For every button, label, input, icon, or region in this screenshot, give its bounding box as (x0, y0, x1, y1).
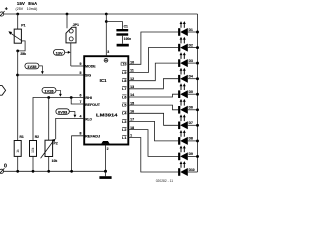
svg-text:L9: L9 (122, 71, 126, 75)
node P1 wiper (16, 50, 19, 53)
label pin name SIG (85, 73, 91, 77)
svg-text:D3: D3 (189, 59, 193, 63)
svg-text:18: 18 (130, 126, 134, 130)
wire pin 17 to D8 (128, 121, 178, 140)
label C1 value (124, 37, 131, 41)
node P2 bottom (47, 170, 50, 173)
node SIG tap (16, 74, 19, 77)
label pin name REFADJ (85, 135, 100, 139)
wire pin 16 to D7 (128, 113, 178, 125)
LED D3 (178, 52, 197, 67)
svg-text:1V26: 1V26 (44, 90, 53, 94)
node D3 anode rail (196, 62, 199, 65)
wire pin 2 ground (105, 145, 107, 172)
pin number 14 (130, 93, 134, 97)
LED D8 (178, 130, 197, 145)
node pin2 bottom (104, 170, 107, 173)
svg-text:D4: D4 (189, 75, 193, 79)
svg-text:SIG: SIG (85, 73, 91, 77)
pin number 17 (130, 118, 134, 122)
jumper JP1 (66, 14, 79, 66)
node R2 bottom (32, 170, 35, 173)
svg-text:JP1: JP1 (73, 23, 79, 27)
svg-text:D7: D7 (189, 121, 193, 125)
svg-text:020282 - 11: 020282 - 11 (156, 179, 174, 183)
resistor R1 (14, 135, 24, 171)
svg-text:10mA): 10mA) (27, 7, 38, 11)
node C1 tap (105, 20, 108, 23)
label pin name L8 (122, 79, 126, 84)
label pin name L2 (122, 128, 126, 133)
node D1 anode rail (196, 31, 199, 34)
wire RLO to P2 wiper (56, 118, 84, 139)
svg-text:L2: L2 (122, 128, 126, 132)
label supply voltage (16, 1, 38, 11)
svg-text:5: 5 (79, 71, 81, 75)
potentiometer P1 (8, 14, 25, 51)
wire pin 11 to D2 (128, 48, 178, 73)
label figure number (156, 179, 174, 183)
node REFADJ bottom (70, 170, 73, 173)
svg-text:D9: D9 (189, 152, 193, 156)
svg-text:REFOUT: REFOUT (85, 103, 101, 107)
label P1 value (20, 52, 26, 56)
label pin name L6 (122, 95, 126, 100)
label pin name L5 (122, 103, 126, 108)
svg-text:8mA: 8mA (28, 1, 37, 6)
wire pin 3 supply (105, 14, 107, 56)
testpoint 1V35 (25, 63, 44, 74)
svg-text:1: 1 (130, 134, 132, 138)
svg-text:L5: L5 (122, 104, 126, 108)
LED D5 (178, 83, 197, 98)
svg-text:L1: L1 (122, 136, 126, 140)
svg-text:D2: D2 (189, 43, 193, 47)
svg-text:L8: L8 (122, 79, 126, 83)
pin number 10 (130, 61, 134, 65)
svg-text:L7: L7 (122, 87, 126, 91)
svg-text:R1: R1 (20, 135, 24, 139)
label pin name L4 (122, 111, 126, 116)
svg-text:D1: D1 (189, 28, 193, 32)
terminal 0 supply (0, 163, 7, 174)
node D9 anode rail (196, 155, 199, 158)
svg-text:LM3914: LM3914 (96, 112, 118, 117)
label pin name RHI (85, 96, 91, 100)
label pin name L1 (122, 135, 126, 140)
wire P1 to R1 (17, 51, 19, 141)
wire pin 1 to D10 (128, 138, 178, 173)
wire +supply right rail (197, 14, 199, 172)
testpoint 13V (54, 50, 71, 56)
node D7 anode rail (196, 124, 199, 127)
svg-text:L10: L10 (121, 63, 127, 67)
capacitor C1 (106, 22, 128, 44)
svg-text:8: 8 (79, 132, 81, 136)
svg-text:D10: D10 (189, 168, 195, 172)
svg-text:25k: 25k (20, 52, 26, 56)
pin number 18 (130, 126, 134, 130)
pin number 13 (130, 85, 134, 89)
svg-text:D5: D5 (189, 90, 193, 94)
terminal + supply (0, 7, 8, 18)
svg-text:0V93: 0V93 (58, 111, 67, 115)
svg-text:10k: 10k (52, 159, 58, 163)
ground bottom (99, 171, 111, 179)
testpoint 0V93 (56, 109, 76, 118)
node R1 bottom (16, 170, 19, 173)
label pin name REFOUT (85, 103, 101, 107)
svg-text:D8: D8 (189, 137, 193, 141)
wire SIG (18, 74, 85, 76)
LED D10 (178, 161, 197, 176)
IC1 supply symbol pin 3 circle (104, 58, 108, 62)
wire pin 14 to D5 (128, 94, 178, 97)
node D6 anode rail (196, 108, 199, 111)
node IC supply top (105, 13, 108, 16)
svg-text:1k: 1k (16, 149, 20, 153)
resistor R2 (30, 135, 40, 171)
label IC1 (100, 78, 107, 83)
node P1 top (16, 13, 19, 16)
LED D2 (178, 37, 197, 52)
wire REFADJ to 0V (72, 136, 85, 172)
svg-text:P2: P2 (53, 142, 57, 146)
svg-text:+: + (5, 7, 8, 13)
wire 0V rail (3, 170, 105, 172)
pin number 8 (79, 132, 81, 136)
wire pin 15 to D6 (128, 105, 178, 110)
wire P2 top (48, 98, 50, 141)
LED D9 (178, 146, 197, 161)
wire MODE (71, 65, 84, 67)
label pin name MODE (85, 64, 96, 68)
testpoint 1V26 (42, 88, 62, 97)
label pin name L9 (122, 70, 126, 75)
svg-text:L3: L3 (122, 120, 126, 124)
pin number 6 (79, 93, 81, 97)
node D2 anode rail (196, 46, 199, 49)
pin number 11 (130, 69, 134, 73)
label pin name L10 (121, 62, 127, 66)
LED D7 (178, 114, 197, 129)
wire pin 12 to D3 (128, 63, 178, 81)
node REFOUT tap (70, 96, 73, 99)
svg-text:10k: 10k (31, 147, 35, 153)
svg-text:R2: R2 (35, 135, 39, 139)
svg-text:1V35: 1V35 (27, 65, 36, 69)
wire RHI (33, 98, 84, 141)
svg-text:RHI: RHI (85, 96, 91, 100)
pin number 9 (79, 62, 81, 66)
label pin name RLO (85, 117, 92, 121)
pin number 4 (79, 114, 81, 118)
wire pin 18 to D9 (128, 130, 178, 157)
node D8 anode rail (196, 139, 199, 142)
pin number 5 (79, 71, 81, 75)
svg-text:15V: 15V (17, 1, 26, 6)
svg-text:2: 2 (107, 147, 109, 151)
wire +supply rail (4, 13, 198, 15)
svg-text:C1: C1 (124, 25, 128, 29)
op-amp U1 body (IC1 LM3914 box) (84, 56, 128, 144)
svg-text:6: 6 (79, 93, 81, 97)
node P2 top tap (47, 96, 50, 99)
svg-text:P1: P1 (21, 23, 25, 27)
pin number 1 (130, 134, 132, 138)
trimmer P2 (41, 139, 58, 171)
label P2 value (52, 159, 58, 163)
svg-text:13V: 13V (56, 52, 64, 56)
wire pin 10 to D1 (128, 32, 178, 64)
node JP1 top (66, 13, 69, 16)
svg-text:4: 4 (79, 114, 81, 118)
LED D4 (178, 68, 197, 83)
svg-text:9: 9 (79, 62, 81, 66)
wire pin 13 to D4 (128, 79, 178, 89)
input arrow marker (0, 86, 6, 96)
svg-text:RLO: RLO (85, 117, 92, 121)
node D4 anode rail (196, 77, 199, 80)
svg-text:MODE: MODE (85, 64, 96, 68)
label pin name L7 (122, 87, 126, 92)
LED D1 (178, 21, 197, 36)
pin number 15 (130, 101, 134, 105)
svg-text:(25V: (25V (16, 7, 24, 11)
pin number 2 (107, 147, 109, 151)
LED D6 (178, 99, 197, 114)
svg-text:100n: 100n (124, 37, 131, 41)
pin number 16 (130, 110, 134, 114)
svg-text:7: 7 (79, 100, 81, 104)
svg-text:D6: D6 (189, 106, 193, 110)
svg-text:IC1: IC1 (100, 78, 107, 83)
svg-text:REFADJ: REFADJ (85, 135, 100, 139)
IC1 ground tab pin 2 (101, 141, 109, 144)
svg-text:L6: L6 (122, 95, 126, 99)
pin number 3 (107, 50, 109, 54)
svg-text:L4: L4 (122, 112, 126, 116)
label pin name L3 (122, 119, 126, 124)
pin number 12 (130, 77, 134, 81)
label LM3914 (96, 112, 118, 117)
svg-text:3: 3 (107, 50, 109, 54)
ground under C1 (117, 44, 129, 47)
node D5 anode rail (196, 93, 199, 96)
wire REFOUT loop (71, 98, 84, 105)
pin number 7 (79, 100, 81, 104)
